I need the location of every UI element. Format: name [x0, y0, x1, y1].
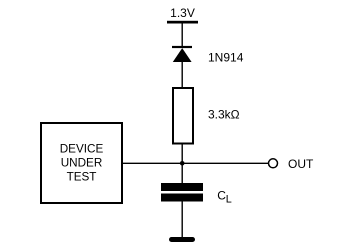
svg-text:3.3kΩ: 3.3kΩ: [208, 108, 240, 122]
capacitor CL: [161, 183, 203, 202]
wire DUT to OUT terminal: [123, 162, 268, 164]
label CL: [217, 188, 231, 205]
label 1N914: [208, 51, 244, 65]
device under test box: [41, 123, 122, 203]
node junction dot: [180, 161, 185, 166]
label 3.3kOhm: [208, 108, 240, 122]
label OUT: [288, 157, 314, 171]
svg-text:DEVICE: DEVICE: [60, 143, 104, 156]
svg-text:TEST: TEST: [67, 171, 97, 184]
wire resistor to capacitor through node: [181, 144, 183, 184]
supply rail bar 1.3V: [167, 21, 198, 24]
svg-text:1.3V: 1.3V: [170, 6, 195, 20]
svg-text:UNDER: UNDER: [61, 157, 103, 170]
label 1.3V: [170, 6, 195, 20]
svg-text:L: L: [226, 194, 232, 206]
wire supply to diode: [181, 24, 183, 48]
ground: [169, 237, 195, 242]
resistor 3.3k: [173, 88, 193, 144]
svg-text:OUT: OUT: [288, 157, 314, 171]
svg-text:1N914: 1N914: [208, 51, 244, 65]
terminal OUT: [269, 159, 278, 168]
diode 1N914: [172, 46, 192, 62]
wire diode to resistor: [181, 62, 183, 88]
wire capacitor to ground: [181, 202, 183, 239]
